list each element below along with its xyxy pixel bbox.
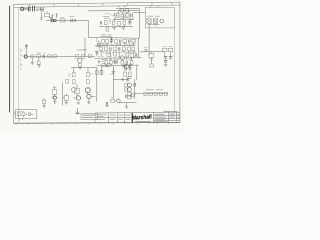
resistor R32 [128, 47, 131, 51]
ground [77, 102, 80, 104]
resistor R44 [72, 80, 75, 84]
capacitor C4 [131, 14, 132, 17]
mains label text [147, 15, 160, 17]
wire channel bus [28, 55, 96, 58]
resistor R33 [132, 47, 135, 51]
ground [42, 106, 45, 108]
capacitor C14 [135, 53, 136, 56]
resistor R9 [112, 21, 115, 25]
capacitor C11 [129, 39, 130, 42]
wire to ground [126, 103, 128, 106]
volume pot VR2 [51, 19, 54, 22]
resistor R13 [106, 28, 109, 32]
ground [121, 65, 124, 67]
resistor R35 [114, 52, 117, 56]
filter cap C20 [164, 61, 167, 62]
resistor R23 [102, 39, 105, 43]
resistor R14 [31, 55, 34, 58]
diode D7 [164, 92, 167, 95]
ground [37, 65, 40, 67]
node labels text [118, 5, 127, 7]
phase inverter top wire [71, 65, 139, 68]
label text speckle mid row [95, 51, 135, 52]
output valve V6 grid network [52, 90, 56, 95]
impedance selector label [131, 92, 136, 94]
wire corner down to tone stack [88, 21, 139, 39]
feedback resistor R66 [128, 76, 131, 79]
valve V4 envelope [97, 43, 101, 47]
mains wiring [148, 23, 160, 28]
ground [105, 65, 108, 67]
cathode resistor R22 [79, 63, 82, 66]
smoothing resistor R65 [168, 48, 172, 52]
choke L1 [150, 64, 154, 67]
wire tone mid row [95, 45, 135, 47]
trim capacitor C22 [56, 13, 58, 18]
resistor R54 [100, 70, 103, 74]
mid block texture marks [98, 44, 137, 46]
resistor R45 [87, 80, 90, 84]
valve V8 envelope [124, 64, 128, 68]
output valve V7 envelope [76, 96, 80, 100]
wire HT drop [138, 8, 139, 58]
resistor R37 [131, 53, 134, 57]
frame: left inner line [18, 7, 20, 123]
footswitch box [15, 110, 36, 119]
ground [125, 106, 128, 108]
driver transistor TR2 [87, 94, 91, 98]
wire drop right [87, 67, 89, 72]
resistor R7 [121, 15, 124, 19]
smoothing resistor R64 [163, 48, 167, 52]
diode D4 [149, 92, 152, 95]
resistor R31 [123, 47, 126, 51]
wire anode drop [77, 38, 87, 57]
neon lamp LP1 [160, 19, 164, 23]
resistor R6 [117, 14, 120, 18]
R64 R65 labels [163, 46, 173, 48]
component labels [68, 74, 93, 76]
resistor R25 [115, 40, 118, 44]
lower row capacitor C15 [115, 61, 116, 64]
emitter resistor R60 [125, 88, 128, 91]
mains input leads [151, 5, 159, 8]
resistor R17 [37, 61, 40, 64]
wire jack drop [25, 50, 27, 55]
ground [87, 102, 90, 104]
title block divider right of logo [153, 112, 176, 122]
wire drop left [73, 68, 75, 73]
frame: right outer line [179, 2, 181, 122]
preamp valve V1 envelope [120, 8, 124, 12]
wire switch drop [150, 52, 152, 64]
wire screen bus [62, 83, 64, 106]
wire OT primary [135, 65, 137, 99]
lower row resistor R38 [105, 61, 108, 65]
resistor R28 [100, 47, 103, 51]
potentiometer VR1 [51, 14, 54, 19]
lower row capacitor C16 [126, 61, 127, 64]
preamp upper text specks [111, 16, 134, 20]
wire supply rail B [116, 7, 139, 9]
resistor R1 [33, 6, 35, 11]
cathode cluster text [103, 16, 109, 18]
capacitor C5 [128, 20, 131, 26]
wire lower drops [106, 57, 132, 61]
impedance selector SK2 [117, 99, 121, 103]
wire grid row [113, 13, 133, 20]
wire cathode bus [99, 25, 133, 27]
fuse FS1 [147, 19, 152, 23]
lower row resistor R41 [130, 61, 133, 65]
channel 2 input jack J2 [24, 55, 27, 58]
ground [113, 27, 117, 29]
ground [65, 102, 68, 104]
resistor R20 [82, 54, 85, 58]
zobel cap C18 [126, 95, 127, 98]
notes text [82, 115, 96, 117]
footswitch resistor R51 [17, 113, 20, 116]
capacitor C7 above [25, 44, 28, 48]
wire tone stack verticals [103, 42, 133, 46]
title block outline top [95, 111, 180, 114]
wire main bus [46, 19, 89, 21]
resistor R19 [76, 54, 79, 58]
bias pot VR5 [121, 78, 124, 82]
wire to mains box [133, 11, 145, 13]
input jack J1 [21, 8, 24, 11]
capacitor C10 [120, 40, 121, 44]
emitter resistor R59 [125, 84, 128, 87]
presence pot VR4 [112, 67, 116, 75]
R70 label [111, 97, 114, 99]
footswitch text [17, 110, 24, 112]
output network wiring [110, 98, 119, 101]
bias resistor R48 [64, 96, 68, 101]
resistor R12 [105, 21, 108, 25]
zobel resistor R61 [130, 94, 134, 97]
capacitor C9 [110, 38, 113, 43]
driver transistor TR2 [86, 87, 91, 92]
heater wiring text [146, 89, 163, 91]
frame: bottom line [14, 121, 181, 124]
preamp interconnect verticals [110, 12, 127, 27]
svg-text:Marshall: Marshall [132, 114, 153, 121]
left border rotated stamp text [21, 49, 22, 71]
resistor R4 label [60, 16, 64, 18]
transistor TR4 [128, 88, 132, 92]
driver stage box [86, 88, 90, 92]
TR2 wiring [88, 93, 96, 102]
diode D6 [159, 92, 162, 95]
mid block texture marks 2 [96, 51, 136, 54]
grid stopper R69 [42, 100, 46, 103]
driver transistor TR1 [72, 87, 77, 92]
frame: top band inner line [14, 5, 181, 7]
resistor R56 [107, 64, 111, 67]
resistor R53 [95, 70, 98, 74]
resistor R34 [107, 53, 110, 56]
R48 wiring [63, 94, 67, 102]
wire supply rail A [88, 10, 139, 12]
notes box [81, 113, 98, 119]
wire [39, 7, 44, 13]
filter cap C19 [164, 57, 167, 58]
tone stack labels text [101, 35, 112, 37]
ground [78, 68, 81, 70]
wire [101, 66, 103, 75]
bias network resistor R57 [124, 72, 127, 76]
bias network resistor R58 [128, 72, 131, 76]
pot wiper arrow [111, 73, 113, 74]
title block small text rows (left cells) [96, 114, 130, 119]
component labels [37, 52, 47, 54]
capacitor C3 [71, 19, 72, 22]
pot VR3 [95, 52, 98, 56]
resistor R16 [48, 55, 52, 58]
wire driver row [113, 78, 128, 80]
label text speckle low row [103, 58, 131, 60]
wire tone lower verticals [101, 51, 133, 59]
resistor R63 [127, 96, 131, 99]
speaker arrow marks [75, 112, 80, 115]
FS2 label [144, 46, 148, 48]
page fold edge line [9, 6, 11, 113]
wire [41, 11, 47, 18]
resistor R36 [126, 53, 129, 57]
wire V6 top feed [54, 84, 77, 90]
lower row resistor R39 [110, 61, 113, 65]
capacitor C12 [110, 47, 111, 50]
title block thick divider left of logo [131, 113, 133, 123]
valve V6 label [52, 87, 56, 89]
resistor R26 [123, 40, 127, 43]
label text speckle tone row [96, 41, 135, 45]
wire drop to ground [32, 58, 38, 63]
diode D3 [144, 92, 147, 95]
ground [53, 102, 56, 104]
HT feed wire [140, 51, 165, 53]
title block small text rows (right cells) [135, 111, 180, 122]
resistor R11 [123, 21, 126, 25]
valve V3 envelope [78, 58, 83, 63]
V6 wiring [52, 95, 55, 102]
ground [31, 62, 34, 64]
preamp valve V2 envelope [125, 8, 129, 12]
power amp feedback chain vertical wire [96, 67, 98, 101]
output valve V7 grid network [75, 88, 79, 93]
mid block texture marks 3 [98, 56, 139, 57]
footswitch wiring [19, 114, 34, 120]
preamp text specks 2 [105, 13, 129, 17]
main vertical bus [112, 66, 114, 99]
resistor R42 [72, 73, 75, 77]
wire mains enclosure right extension [174, 28, 176, 112]
footswitch LED D1 [28, 113, 31, 116]
resistor R24 [106, 39, 109, 43]
frame: bottom ticks [16, 122, 169, 125]
C7 label [25, 48, 28, 50]
title block mid horizontal rules [95, 116, 180, 121]
valve V5 envelope [120, 56, 124, 60]
R69 wiring [43, 99, 45, 106]
speaker tap wire [77, 108, 79, 114]
capacitor C2 [41, 7, 43, 11]
ground [122, 27, 126, 29]
resistor R10 [118, 22, 121, 26]
capacitor C13 [119, 47, 120, 50]
resistor R30 [114, 47, 117, 51]
title block cell dividers [109, 113, 132, 123]
capacitor C3 label [69, 15, 74, 17]
ground [40, 18, 43, 20]
ground [164, 65, 167, 67]
SW2 label [149, 58, 153, 60]
output network resistor R70 [111, 99, 115, 102]
wire grid feed [94, 37, 96, 39]
output cap C17 [134, 83, 135, 87]
title block left edge [94, 113, 96, 123]
wire output row [119, 102, 136, 104]
bias diode D2 [126, 78, 129, 81]
ground [105, 106, 108, 107]
resistor R15 [37, 55, 41, 58]
switch SW1 [153, 19, 158, 23]
mixer lower cluster marks [98, 60, 117, 64]
small component pair [106, 102, 107, 105]
capacitor C1 [24, 7, 30, 12]
frame: top band outer line [14, 2, 181, 4]
wire volume row [95, 57, 142, 59]
wire from PSU down [148, 28, 150, 55]
resistor R43 [87, 73, 90, 77]
resistor R3 [45, 13, 50, 17]
resistor R4 [60, 19, 65, 22]
resistor R5 [74, 19, 75, 22]
output valve V6 envelope [53, 96, 56, 99]
lower row resistor R40 [121, 61, 124, 65]
OT core cluster [125, 64, 131, 70]
mixer resistor R18 [53, 55, 57, 58]
border stamp marks [13, 111, 15, 115]
output chain resistor R62 [127, 92, 131, 95]
preamp wiring stubs [110, 11, 133, 20]
resistor R55 [102, 64, 106, 67]
psu wiring verticals [165, 52, 171, 64]
filter cap C21 [169, 57, 172, 58]
cathode bias resistor R46 [66, 79, 69, 83]
resistor R21 [88, 55, 91, 58]
mains enclosure box [145, 8, 174, 28]
standby switch SW2 [149, 53, 154, 57]
wire tone row [97, 38, 99, 43]
ground [49, 18, 52, 20]
resistor R27 [132, 39, 136, 42]
resistor R29 [105, 47, 108, 51]
heater bus wire [135, 93, 169, 95]
V7 wiring [73, 88, 77, 98]
fuse FS2 [144, 49, 147, 52]
junction K1 [96, 46, 97, 47]
frame: top band ticks [30, 2, 173, 7]
capacitor C6 [100, 21, 101, 24]
vertical feed [110, 37, 112, 44]
footswitch resistor R52 [22, 113, 25, 116]
diode D5 [154, 92, 157, 95]
capacitor C8 [43, 55, 44, 59]
transistor TR3 [128, 83, 132, 87]
R69 label [42, 98, 45, 100]
resistor R8 [126, 14, 129, 18]
resistor R2 value labels [36, 7, 39, 10]
frame: left outer line [13, 4, 15, 123]
